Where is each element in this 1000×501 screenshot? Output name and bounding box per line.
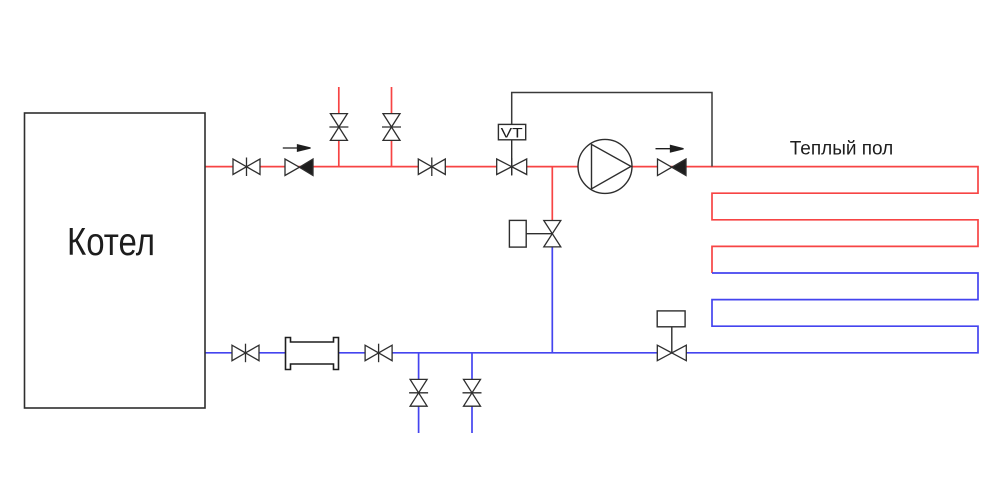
strainer / union F1 (spool with flanges) <box>286 338 339 370</box>
actuator box of mixing valve M1 <box>509 220 526 247</box>
wire: return pipe (blue) floor coil blue passes + main return <box>205 273 978 353</box>
actuator box of balancing valve BV1 <box>657 311 685 327</box>
flow arrow above CV1 <box>283 145 311 151</box>
flow arrow above CV2 <box>656 146 684 152</box>
wire: bypass pipe (black) from VT head over to after check valve <box>512 93 712 167</box>
wire: air-vent branch pipe 1 (red vertical) <box>338 87 340 167</box>
valve V3 (thermostatic valve on supply) <box>497 159 527 175</box>
check valve CV1 <box>285 159 313 176</box>
check valve CV2 <box>658 159 687 176</box>
air vent valve B2 (vertical valve) <box>382 114 401 141</box>
wire: supply pipe (red) main + floor coil red passes <box>205 167 978 273</box>
valve V1 (gate valve on supply) <box>233 158 260 177</box>
pump P1 <box>578 139 632 193</box>
balancing valve BV1 on return <box>657 345 686 361</box>
wire: mixing branch blue vertical (mixing valve to return) <box>551 247 553 353</box>
stem from VT head to valve V3 <box>511 140 513 175</box>
drain valve D2 (vertical valve) <box>463 379 482 406</box>
drain valve D1 (vertical valve) <box>409 379 428 406</box>
air vent valve B1 (vertical valve) <box>329 114 348 141</box>
boiler <box>25 113 206 408</box>
svg-text:Теплый пол: Теплый пол <box>790 139 894 160</box>
stem from actuator to balancing valve BV1 <box>671 327 673 353</box>
valve V4 (gate valve on return) <box>232 344 259 363</box>
thermostatic head box VT <box>498 124 525 140</box>
stem from actuator to mixing valve M1 <box>526 233 552 235</box>
valve V5 (gate valve on return) <box>365 344 392 363</box>
wire: air-vent branch pipe 2 (red vertical) <box>391 87 393 167</box>
wire: drain branch pipe 1 (blue vertical) <box>418 353 420 433</box>
svg-text:VT: VT <box>501 124 524 140</box>
wire: mixing branch red vertical (supply to mixing valve) <box>551 167 553 222</box>
svg-text:Котел: Котел <box>67 221 155 264</box>
valve V2 (gate valve on supply) <box>418 158 445 177</box>
stem center line of V3 <box>511 158 513 176</box>
wire: drain branch pipe 2 (blue vertical) <box>471 353 473 433</box>
mixing valve M1 (vertical valve) <box>544 221 561 247</box>
